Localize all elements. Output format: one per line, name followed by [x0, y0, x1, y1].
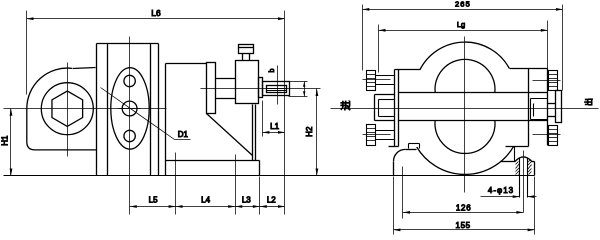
svg-text:D1: D1	[178, 130, 189, 139]
svg-text:H1: H1	[1, 135, 10, 146]
svg-text:126: 126	[456, 203, 472, 212]
svg-text:L1: L1	[270, 122, 279, 131]
svg-text:出: 出	[584, 98, 594, 106]
svg-text:H2: H2	[305, 126, 314, 137]
svg-text:L4: L4	[201, 195, 210, 204]
svg-text:265: 265	[455, 0, 471, 8]
svg-text:Lg: Lg	[457, 20, 465, 29]
svg-text:L3: L3	[242, 195, 251, 204]
svg-text:L5: L5	[149, 195, 158, 204]
svg-text:L6: L6	[151, 8, 161, 18]
svg-text:4-φ13: 4-φ13	[488, 186, 514, 195]
svg-text:155: 155	[456, 221, 471, 230]
svg-text:L2: L2	[267, 195, 276, 204]
svg-text:进: 进	[340, 101, 352, 111]
svg-text:b: b	[269, 68, 276, 72]
